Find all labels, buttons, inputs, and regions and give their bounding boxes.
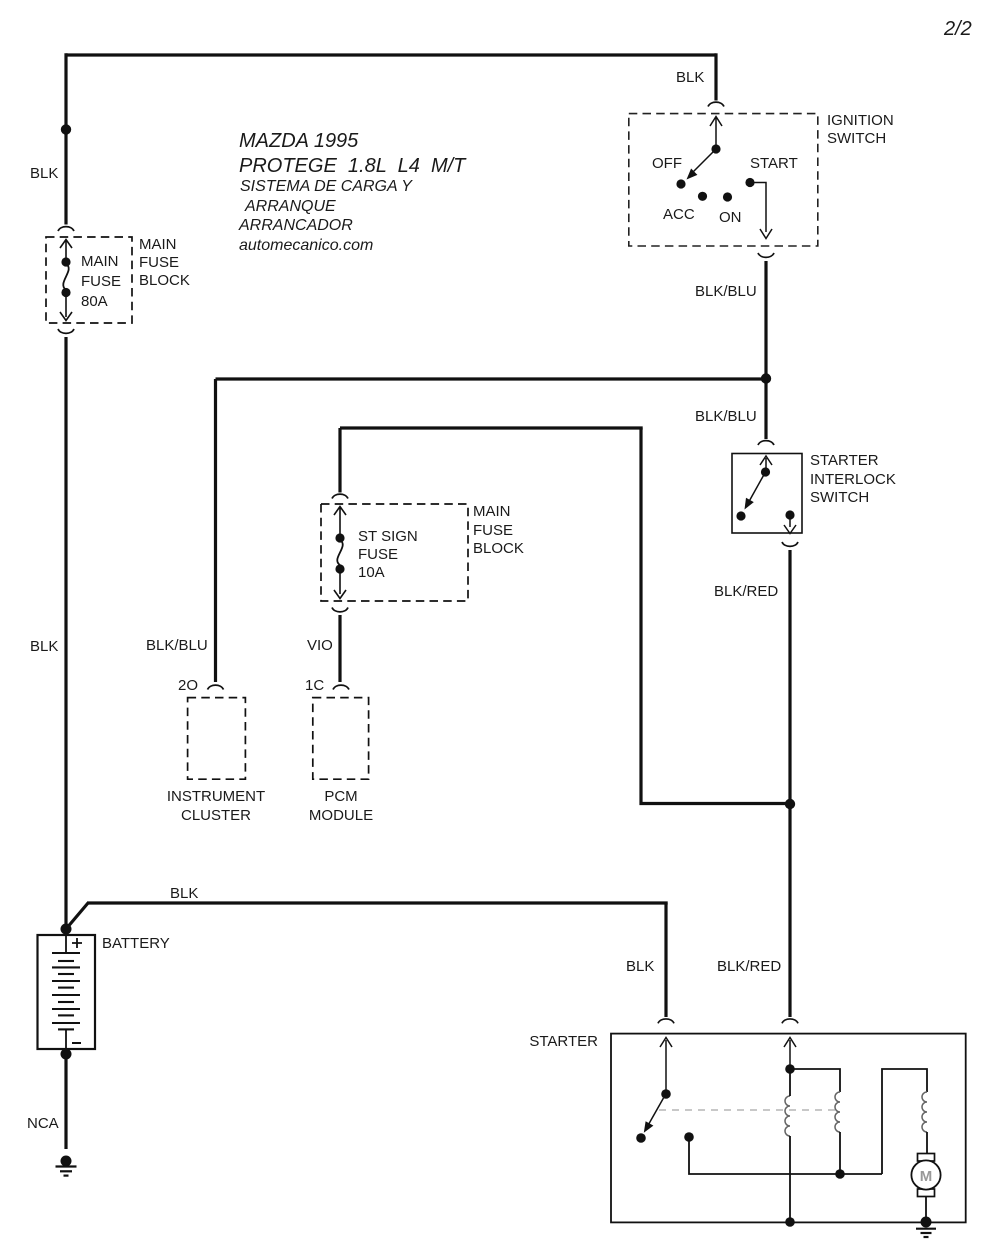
node coil2 bottom <box>835 1169 845 1179</box>
svg-text:CLUSTER: CLUSTER <box>181 807 251 824</box>
svg-text:BLK/RED: BLK/RED <box>717 958 781 975</box>
ignition arrow in <box>710 117 722 147</box>
svg-text:PROTEGE 1.8L L4 M/T: PROTEGE 1.8L L4 M/T <box>239 155 467 177</box>
svg-text:BLK/BLU: BLK/BLU <box>146 637 208 654</box>
svg-text:automecanico.com: automecanico.com <box>239 237 373 254</box>
starter arrow in left <box>660 1038 672 1093</box>
svg-text:SWITCH: SWITCH <box>810 489 869 506</box>
svg-text:M: M <box>920 1168 933 1185</box>
wire battery to ground NCA <box>64 1054 67 1149</box>
connector into starter BLK/RED <box>782 1019 798 1023</box>
wire START to exit w/ arrow <box>754 183 772 239</box>
node junction blk/red <box>785 799 795 809</box>
interlock contact lower left <box>736 511 745 520</box>
battery plates <box>52 953 80 1029</box>
hold coil <box>835 1092 840 1132</box>
svg-text:OFF: OFF <box>652 155 682 172</box>
st sign fuse dot top <box>335 533 344 542</box>
pcm module box <box>313 698 369 780</box>
connector into st sign fuse <box>332 494 348 498</box>
wire up to field coil <box>882 1069 927 1174</box>
wire motor to ground <box>925 1197 927 1222</box>
ignition wiper arrow to OFF <box>693 152 714 173</box>
starter switch pivot dot <box>661 1089 671 1099</box>
svg-text:BLK: BLK <box>30 165 58 182</box>
main fuse terminal dot bottom <box>61 288 70 297</box>
wire hold coil bottom <box>839 1132 841 1174</box>
svg-text:START: START <box>750 155 798 172</box>
instrument cluster box <box>188 698 246 780</box>
wire left vertical BLK long <box>64 337 67 930</box>
svg-text:SWITCH: SWITCH <box>827 130 886 147</box>
svg-text:BLK: BLK <box>170 885 198 902</box>
field coil <box>922 1092 927 1132</box>
ground starter <box>916 1217 936 1238</box>
main fuse arrow out <box>60 295 72 321</box>
main fuse block box <box>46 237 132 323</box>
battery plus sign <box>72 938 82 948</box>
svg-text:VIO: VIO <box>307 637 333 654</box>
main fuse arrow in <box>60 240 72 260</box>
connector into interlock switch <box>758 441 774 445</box>
svg-text:INSTRUMENT: INSTRUMENT <box>167 788 265 805</box>
linkage dashed <box>659 1109 836 1111</box>
svg-text:BLK/BLU: BLK/BLU <box>695 408 757 425</box>
svg-text:BLOCK: BLOCK <box>473 540 524 557</box>
connector out of interlock switch <box>782 542 798 546</box>
svg-text:80A: 80A <box>81 293 108 310</box>
wire battery jog diagonal <box>66 903 88 929</box>
wire starter BLK drop <box>664 903 667 1017</box>
connector into ignition switch <box>708 102 724 106</box>
contact OFF <box>676 179 685 188</box>
contact ACC <box>698 192 707 201</box>
wire ignition to junction <box>764 261 767 376</box>
node solenoid ground <box>785 1217 795 1227</box>
svg-text:BLK: BLK <box>676 69 704 86</box>
wire horizontal to instrument branch <box>216 377 767 380</box>
main fuse element <box>63 264 68 290</box>
st sign fuse dot bottom <box>335 564 344 573</box>
wire BLK horizontal to starter <box>87 901 668 904</box>
ignition pivot dot <box>711 144 720 153</box>
wire st sign drop <box>338 428 341 493</box>
battery box <box>38 935 96 1049</box>
connector into starter BLK <box>658 1019 674 1023</box>
interlock arrow out <box>784 517 796 534</box>
svg-text:INTERLOCK: INTERLOCK <box>810 471 896 488</box>
connector to main fuse block <box>58 227 74 231</box>
svg-text:10A: 10A <box>358 564 385 581</box>
interlock pivot dot <box>761 467 770 476</box>
svg-text:IGNITION: IGNITION <box>827 112 894 129</box>
interlock arrow in <box>760 456 772 470</box>
connector 1C pcm <box>333 685 349 689</box>
wire field coil to motor <box>926 1132 928 1154</box>
connector 2O instrument cluster <box>208 685 224 689</box>
svg-text:STARTER: STARTER <box>810 452 879 469</box>
battery minus sign <box>72 1042 81 1044</box>
wire junction to interlock <box>764 378 767 439</box>
svg-text:MAIN: MAIN <box>81 253 119 270</box>
wire pcm branch down and right <box>641 428 786 804</box>
motor M <box>911 1154 940 1197</box>
starter arrow in right <box>784 1038 796 1068</box>
starter interlock switch box <box>732 454 802 534</box>
interlock wiper arrow <box>749 476 764 502</box>
svg-text:BLK: BLK <box>30 638 58 655</box>
svg-text:FUSE: FUSE <box>139 254 179 271</box>
wire solenoid to bottom <box>789 1069 791 1221</box>
svg-text:ACC: ACC <box>663 206 695 223</box>
svg-text:ST SIGN: ST SIGN <box>358 528 418 545</box>
svg-text:2/2: 2/2 <box>943 18 972 40</box>
svg-text:MAIN: MAIN <box>473 503 511 520</box>
svg-text:MODULE: MODULE <box>309 807 373 824</box>
wire vio to pcm <box>338 615 341 682</box>
wire contact down and right <box>689 1137 882 1174</box>
node battery negative <box>61 1049 72 1060</box>
svg-text:STARTER: STARTER <box>529 1033 598 1050</box>
starter switch wiper arrow <box>649 1098 664 1125</box>
svg-text:ARRANCADOR: ARRANCADOR <box>238 217 353 234</box>
main fuse terminal dot top <box>61 257 70 266</box>
wire top horizontal BLK <box>66 53 716 56</box>
connector below st sign fuse <box>332 608 348 612</box>
svg-text:BLK: BLK <box>626 958 654 975</box>
st sign fuse arrow out <box>334 572 346 599</box>
svg-text:BATTERY: BATTERY <box>102 935 170 952</box>
svg-text:BLOCK: BLOCK <box>139 272 190 289</box>
node junction blk/blu <box>761 373 771 383</box>
title block <box>238 130 467 254</box>
svg-text:BLK/BLU: BLK/BLU <box>695 283 757 300</box>
svg-text:PCM: PCM <box>324 788 357 805</box>
svg-text:SISTEMA DE CARGA Y: SISTEMA DE CARGA Y <box>240 178 413 195</box>
connector below main fuse block <box>58 329 74 333</box>
wire interlock to starter BLK/RED <box>788 550 791 1017</box>
svg-text:1C: 1C <box>305 677 324 694</box>
wire instrument drop <box>214 379 217 682</box>
battery bottom conductor <box>65 1029 67 1049</box>
ground battery <box>56 1156 77 1176</box>
interlock contact right <box>785 510 794 519</box>
svg-text:FUSE: FUSE <box>81 273 121 290</box>
svg-text:MAIN: MAIN <box>139 236 177 253</box>
node solenoid top <box>785 1064 795 1074</box>
ignition switch box <box>629 114 818 246</box>
wire left vertical to main fuse <box>64 53 67 224</box>
svg-text:FUSE: FUSE <box>358 546 398 563</box>
starter contact lower left <box>636 1133 646 1143</box>
wire ignition drop <box>714 53 717 100</box>
svg-text:NCA: NCA <box>27 1115 59 1132</box>
battery top conductor <box>65 935 67 953</box>
pull-in coil <box>785 1096 790 1136</box>
st sign fuse block box <box>321 504 468 601</box>
wire to hold coil <box>790 1069 840 1092</box>
svg-text:ON: ON <box>719 209 742 226</box>
contact START <box>745 178 754 187</box>
svg-text:BLK/RED: BLK/RED <box>714 583 778 600</box>
svg-text:MAZDA 1995: MAZDA 1995 <box>239 130 359 152</box>
svg-text:FUSE: FUSE <box>473 522 513 539</box>
node battery positive junction <box>61 924 72 935</box>
connector out of ignition switch <box>758 253 774 257</box>
starter box <box>611 1034 966 1223</box>
contact ON <box>723 192 732 201</box>
node on left wire <box>61 124 71 134</box>
starter contact to motor dot <box>684 1132 694 1142</box>
svg-text:2O: 2O <box>178 677 198 694</box>
wire horizontal to st sign fuse <box>340 426 643 429</box>
st sign fuse element <box>337 540 342 565</box>
st sign fuse arrow in <box>334 507 346 535</box>
svg-text:ARRANQUE: ARRANQUE <box>244 198 336 215</box>
